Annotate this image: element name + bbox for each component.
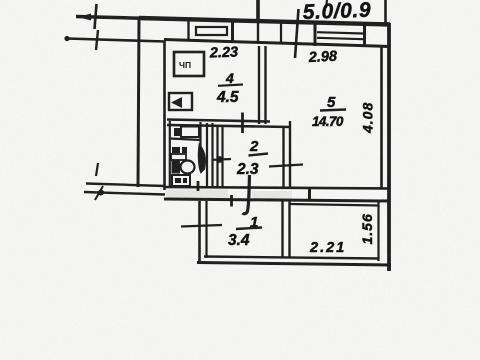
- dimension tick small above window W2: [326, 0, 327, 8]
- wire: top-left exterior wall lower line: [64, 30, 165, 50]
- wall vertical division x=188: [187, 20, 189, 41]
- dimension tick crossing room1 left wall: [181, 225, 222, 227]
- wall: room1 left outer vertical: [198, 201, 201, 261]
- bathroom divider horizontal under sink: [170, 139, 201, 141]
- wall: main middle horizontal (lower line): [164, 199, 390, 201]
- room 5 fraction line: [320, 110, 346, 111]
- sink box in kitchen (lower) with arrow: [169, 93, 192, 110]
- window W2 left jamb: [314, 24, 317, 47]
- sink tap dark blob: [174, 128, 181, 136]
- bathroom inner vertical divider: [199, 122, 201, 162]
- wall: kitchen / room5 divider (double vertical): [258, 46, 260, 124]
- wall: main middle horizontal (upper line): [164, 187, 390, 189]
- window W2 right jamb: [363, 25, 366, 47]
- wall vertical division x=281: [280, 22, 282, 45]
- dimension tick crossing room2 right wall: [269, 165, 303, 167]
- window W1 inner sash rectangle: [196, 27, 227, 35]
- vent box in kitchen (upper): [174, 52, 204, 76]
- balcony inner right line: [377, 200, 379, 261]
- dimension tick bottom-left: [96, 163, 98, 176]
- wire: bottom-left landing wall lower line: [84, 192, 165, 195]
- toilet tank: [172, 160, 181, 174]
- window W2 sash lines: [317, 32, 363, 33]
- sink outline: [181, 127, 199, 138]
- wall: room1 left inner vertical: [205, 201, 207, 258]
- window W1 outer verticals: [231, 21, 234, 43]
- dimension extension line at x=258 above wall: [256, 0, 260, 20]
- door tick at x=242 on room2 top wall: [241, 113, 244, 134]
- room 4 fraction line: [218, 85, 243, 86]
- wall vertical division x=258: [257, 22, 259, 45]
- bathroom door leaf dark stroke: [199, 145, 205, 172]
- wall: left exterior outer line: [138, 17, 139, 187]
- wall: bottom inner line: [204, 257, 379, 259]
- wall: left exterior inner line: [163, 41, 166, 190]
- bathroom right wall double line: [206, 123, 208, 188]
- balcony inner top line: [290, 204, 379, 206]
- dimension tick at x=297: [295, 9, 299, 58]
- wall: bottom outer line: [197, 263, 391, 266]
- room 1 fraction line: [236, 228, 262, 230]
- wall: right exterior outer line: [387, 23, 391, 271]
- wall: room2 top (upper line): [167, 120, 270, 122]
- tick with dot on room2 left wall: [213, 158, 231, 161]
- wall: room2 top (lower line): [167, 125, 291, 127]
- wall: main top exterior (inner line): [164, 40, 390, 47]
- wall: room1/balcony divider double vertical: [281, 201, 283, 257]
- wire: bottom-left landing wall upper line: [86, 184, 165, 187]
- wall: main top exterior (outer line): [139, 18, 390, 25]
- bathroom left wall line: [169, 121, 171, 188]
- room 2 fraction line: [249, 154, 269, 156]
- washer knobs scribble: [172, 147, 180, 153]
- wall smudge fill patches: [166, 190, 228, 199]
- wall: room2 left double vertical: [216, 127, 218, 187]
- door ticks crossing middle wall: [197, 181, 200, 191]
- wall: room2 right / room5 divider double vertical: [282, 126, 284, 187]
- wire: top-left exterior wall upper line: [76, 17, 190, 20]
- dimension tick top-left upper: [78, 4, 97, 29]
- dimension extension line at x=385 above wall: [384, 0, 387, 23]
- lower fixture box: [172, 175, 190, 186]
- toilet bowl: [181, 161, 195, 174]
- wall: room5 right inner line: [380, 47, 383, 188]
